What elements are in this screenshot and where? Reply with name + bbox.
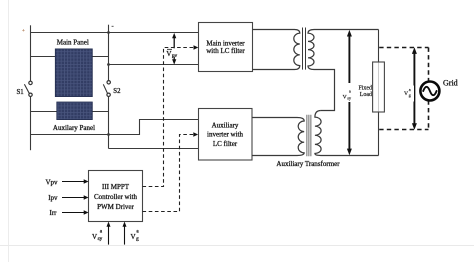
main inverter box U1 xyxy=(199,23,253,72)
dashed link to grid top xyxy=(379,47,428,49)
arrowhead into main inverter xyxy=(194,45,199,50)
transformer T2 core xyxy=(307,115,311,156)
svg-text:Fixed: Fixed xyxy=(358,85,371,91)
grid AC source xyxy=(420,82,439,101)
svg-text:V: V xyxy=(166,50,171,58)
dashed grid right leg lower xyxy=(428,100,430,129)
wire aux panel right xyxy=(92,111,108,113)
Vpv measurement arrow xyxy=(172,33,176,65)
input arrow Irr xyxy=(62,210,89,214)
wire to aux inverter lower input xyxy=(109,148,199,150)
wire main panel right xyxy=(92,56,108,58)
svg-text:Grid: Grid xyxy=(443,78,458,87)
main panel xyxy=(55,49,92,97)
svg-text:inverter with: inverter with xyxy=(207,131,243,139)
MPPT controller box U3 xyxy=(89,171,143,222)
load resistor box xyxy=(373,62,385,112)
dashed PWM line to aux inverter xyxy=(143,135,194,212)
label Vsy xyxy=(342,83,357,102)
input arrow Vpv xyxy=(62,179,89,183)
wire right bus upper xyxy=(108,25,110,81)
wire to main inverter lower input xyxy=(109,64,199,66)
feedback arrow Vsy into MPPT xyxy=(107,222,111,245)
svg-text:Vpv: Vpv xyxy=(46,178,59,186)
svg-text:sy: sy xyxy=(98,236,103,242)
svg-text:V: V xyxy=(404,91,408,97)
switch S2 xyxy=(103,81,110,97)
label Vpv xyxy=(166,48,181,59)
svg-text:a: a xyxy=(409,87,411,92)
junction aux upper wire x right bus xyxy=(107,133,110,136)
auxiliary panel xyxy=(57,102,93,120)
transformer T2 primary coil xyxy=(252,118,304,156)
svg-text:g: g xyxy=(136,236,139,242)
transformer T1 secondary coil xyxy=(308,30,379,111)
svg-text:V: V xyxy=(92,233,97,241)
wire left bus lower xyxy=(30,96,32,150)
svg-text:Load: Load xyxy=(360,92,372,98)
label Vsy feedback xyxy=(92,228,103,242)
wire main panel left xyxy=(31,56,56,58)
svg-text:Irr: Irr xyxy=(50,209,58,217)
svg-text:S2: S2 xyxy=(113,88,121,95)
svg-text:+: + xyxy=(22,29,25,34)
junction top bus x right bus xyxy=(107,31,110,34)
wire top bus xyxy=(31,32,199,34)
dashed link to grid bottom xyxy=(379,129,428,131)
svg-text:a: a xyxy=(349,89,351,94)
svg-text:PWM Driver: PWM Driver xyxy=(97,203,134,211)
svg-text:Main Panel: Main Panel xyxy=(57,39,89,47)
dashed PWM line to main inverter xyxy=(143,48,194,187)
svg-text:V: V xyxy=(131,233,136,241)
svg-text:Controller with: Controller with xyxy=(94,193,137,201)
svg-text:-: - xyxy=(112,23,114,30)
arrowhead into aux inverter xyxy=(193,132,198,137)
feedback arrow Vg into MPPT xyxy=(123,222,127,245)
svg-text:Auxiliary Transformer: Auxiliary Transformer xyxy=(276,160,340,168)
transformer T1 primary coil xyxy=(253,30,300,70)
aux inverter box U2 xyxy=(199,109,253,161)
svg-text:pv: pv xyxy=(172,53,178,59)
svg-text:Auxilary Panel: Auxilary Panel xyxy=(53,124,95,132)
Vg measurement arrow xyxy=(412,47,417,130)
transformer T2 secondary coil xyxy=(315,111,379,156)
transformer T1 core xyxy=(303,28,306,70)
wire left bus upper xyxy=(30,25,32,81)
label Vg xyxy=(403,86,414,102)
svg-text:III MPPT: III MPPT xyxy=(102,183,130,191)
input arrow Ipv xyxy=(62,195,89,199)
Vsy measurement arrow xyxy=(347,30,352,155)
svg-text:Auxiliary: Auxiliary xyxy=(212,121,239,129)
svg-text:V: V xyxy=(343,94,347,100)
wire right bus lower xyxy=(108,96,110,148)
svg-text:LC filter: LC filter xyxy=(213,140,238,148)
junction lower input x right bus xyxy=(107,63,110,66)
wire to aux inverter upper input xyxy=(31,120,199,135)
switch S1 xyxy=(24,81,32,96)
svg-text:with LC filter: with LC filter xyxy=(206,47,245,55)
dashed grid right leg upper xyxy=(428,48,430,82)
svg-text:Ipv: Ipv xyxy=(48,194,58,202)
svg-text:S1: S1 xyxy=(17,89,24,96)
label Vg feedback xyxy=(131,228,140,242)
wire load right leg xyxy=(378,30,380,156)
wire aux panel left xyxy=(31,111,57,113)
